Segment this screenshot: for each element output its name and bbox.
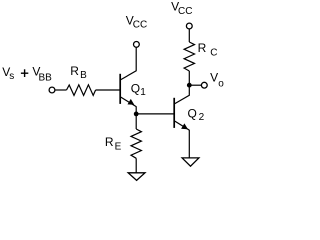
label Q1 bbox=[131, 81, 147, 98]
svg-text:Q: Q bbox=[131, 81, 140, 95]
label RC bbox=[198, 41, 218, 58]
transistor Q2 emitter arrow bbox=[182, 124, 188, 129]
ground under RE bbox=[128, 173, 145, 181]
svg-text:1: 1 bbox=[140, 87, 146, 98]
svg-text:Q: Q bbox=[188, 106, 197, 120]
label RB bbox=[70, 64, 87, 81]
label VCC right bbox=[171, 0, 192, 17]
ground under Q2 emitter bbox=[182, 158, 199, 166]
transistor Q2 emitter diagonal bbox=[174, 121, 189, 130]
svg-text:E: E bbox=[115, 142, 122, 153]
resistor RC bbox=[184, 42, 194, 71]
resistor RB bbox=[67, 85, 96, 96]
svg-text:o: o bbox=[218, 79, 224, 90]
svg-text:B: B bbox=[80, 70, 87, 81]
label Vs (source) bbox=[2, 65, 14, 82]
svg-text:CC: CC bbox=[133, 19, 147, 30]
svg-text:V: V bbox=[210, 71, 218, 85]
transistor Q1 emitter diagonal bbox=[120, 97, 136, 107]
svg-text:2: 2 bbox=[199, 112, 205, 123]
wire RB to Q1 base bbox=[96, 89, 120, 91]
svg-text:s: s bbox=[9, 71, 14, 82]
svg-text:C: C bbox=[210, 47, 217, 58]
svg-text:BB: BB bbox=[39, 72, 53, 83]
transistor Q1 emitter arrow bbox=[128, 100, 134, 105]
plus sign in source label bbox=[21, 69, 28, 77]
VCC terminal circle (right, above RC) bbox=[186, 23, 192, 29]
label VCC left bbox=[126, 14, 148, 31]
svg-text:R: R bbox=[105, 135, 114, 149]
wire input terminal to RB bbox=[55, 89, 67, 91]
label Q2 bbox=[188, 106, 205, 123]
VCC terminal circle (left, Q1 collector) bbox=[134, 42, 140, 48]
wire node to Q2 base bbox=[136, 113, 174, 115]
resistor RE bbox=[131, 129, 141, 158]
label Vo bbox=[210, 71, 224, 90]
wire RE to ground bbox=[135, 158, 137, 173]
svg-text:R: R bbox=[70, 64, 79, 78]
svg-text:R: R bbox=[198, 41, 207, 55]
wire Q2 emitter down to ground bbox=[188, 130, 190, 158]
label VBB (source) bbox=[32, 64, 52, 83]
transistor Q1 collector diagonal bbox=[120, 47, 136, 80]
svg-text:CC: CC bbox=[178, 6, 192, 17]
wire node down to RE bbox=[135, 114, 137, 129]
wire RC down to output node bbox=[188, 71, 190, 85]
wire Q1 emitter down to node bbox=[135, 106, 137, 114]
input terminal circle bbox=[49, 87, 55, 93]
Vo terminal circle bbox=[201, 82, 207, 88]
transistor Q2 collector diagonal bbox=[174, 88, 189, 105]
transistor Q1 base bar bbox=[119, 74, 121, 104]
label RE bbox=[105, 135, 122, 153]
node junction dot (Q1 emitter / RE / Q2 base) bbox=[134, 112, 139, 117]
wire node to Vo terminal bbox=[189, 84, 201, 86]
transistor Q2 base bar bbox=[173, 98, 175, 128]
output node junction dot bbox=[187, 83, 192, 88]
wire VCC to RC bbox=[188, 29, 190, 42]
